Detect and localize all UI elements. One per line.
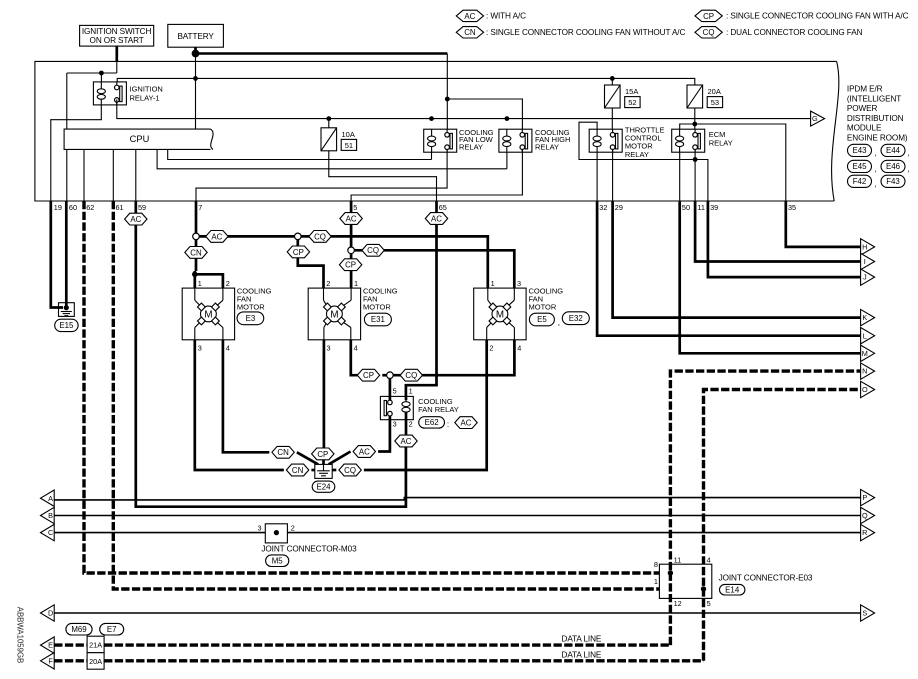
- node switched bus / high relay coil junction: [505, 116, 510, 121]
- hexagon tag AC on pin 65 wire: [425, 213, 447, 225]
- connector oval F43: [881, 175, 905, 187]
- svg-text:E24: E24: [316, 482, 331, 491]
- svg-text::: :: [447, 420, 449, 429]
- wire data line E: [54, 643, 87, 646]
- connector oval E5: [529, 313, 554, 326]
- svg-text:10A: 10A: [342, 130, 355, 139]
- hexagon tag CN lower ground lead: [286, 464, 308, 476]
- svg-text:2: 2: [226, 279, 230, 288]
- svg-text:MOTOR: MOTOR: [237, 302, 265, 311]
- arrow K: [861, 309, 875, 325]
- hexagon tag CP on E31 ground lead: [312, 448, 334, 460]
- svg-text:RELAY: RELAY: [709, 139, 733, 148]
- svg-text:AC: AC: [359, 447, 370, 456]
- svg-text:ABBWA1059GB: ABBWA1059GB: [16, 607, 25, 663]
- svg-text:P: P: [862, 493, 867, 502]
- wire throttle relay coil feed wrap: [579, 122, 695, 159]
- connector oval E62: [419, 417, 445, 428]
- svg-text:S: S: [862, 609, 867, 618]
- arrow J: [861, 269, 875, 285]
- wire diagonal into ground from CN: [297, 452, 318, 464]
- svg-text:M69: M69: [71, 625, 87, 634]
- wire pin 65 down: [435, 201, 438, 213]
- svg-text:,: ,: [908, 164, 910, 173]
- svg-text:O: O: [862, 385, 868, 394]
- wire cpu to high relay coil: [157, 149, 507, 168]
- svg-text:E62: E62: [425, 418, 439, 427]
- svg-text:IGNITION SWITCH: IGNITION SWITCH: [82, 27, 152, 36]
- wire pin 65 to cooling fan relay pin 1: [406, 224, 437, 396]
- wire ignition switch lead: [115, 46, 118, 61]
- joint connector E03 box: [659, 564, 711, 598]
- arrow Q: [861, 507, 875, 523]
- node battery junction: [192, 50, 200, 58]
- arrow E: [41, 637, 55, 653]
- wire fuse 53 to ecm relay: [694, 108, 696, 134]
- svg-text:2: 2: [291, 524, 295, 533]
- wire cpu to low relay coil: [168, 149, 432, 159]
- hexagon tag AC on pin 7 branch: [206, 231, 228, 243]
- wire battery trunk drop to fan relay contacts: [446, 54, 448, 135]
- wire pin 62 CAN line down: [84, 201, 668, 573]
- node switched bus / low relay coil junction: [429, 116, 434, 121]
- svg-text:50: 50: [682, 203, 690, 212]
- battery box: [168, 24, 224, 47]
- arrow R: [861, 524, 875, 540]
- svg-text:32: 32: [599, 203, 607, 212]
- connector oval E43: [848, 144, 872, 156]
- svg-text:ON OR START: ON OR START: [90, 36, 144, 45]
- connector oval E3: [237, 312, 264, 325]
- svg-text:1: 1: [654, 577, 658, 586]
- svg-text:CN: CN: [292, 466, 304, 475]
- fuse 15A 52: [611, 78, 613, 85]
- svg-text:AC: AC: [431, 214, 442, 223]
- svg-text:R: R: [862, 528, 867, 537]
- wire junction down to fan relay pin 5: [389, 379, 392, 397]
- hexagon tag CQ on E5 pin 3 feed: [362, 244, 384, 256]
- svg-text:2: 2: [489, 343, 493, 352]
- wire pin 39 to arrow J: [708, 201, 861, 277]
- svg-text:JOINT CONNECTOR-E03: JOINT CONNECTOR-E03: [719, 573, 813, 582]
- svg-text:19: 19: [54, 203, 62, 212]
- svg-text:: WITH A/C: : WITH A/C: [486, 12, 526, 21]
- splice box 20A: [87, 653, 104, 670]
- svg-text:F: F: [48, 656, 53, 665]
- splice box 21A: [87, 636, 104, 653]
- node switched bus / 10A fuse junction: [326, 116, 331, 121]
- svg-text:JOINT CONNECTOR-M03: JOINT CONNECTOR-M03: [261, 545, 357, 554]
- relay COOLING FAN RELAY E62: [380, 396, 413, 419]
- svg-text:52: 52: [628, 98, 636, 107]
- svg-text:B: B: [48, 511, 53, 520]
- svg-text:AC: AC: [401, 437, 412, 446]
- wire cpu pin 62 output (CAN): [83, 149, 85, 201]
- svg-text:E43: E43: [852, 146, 867, 155]
- junction circle fan relay pin 5 tap: [387, 372, 394, 379]
- hexagon tag AC on fan relay pin 2 wire: [395, 435, 417, 447]
- hexagon tag CP on link row: [357, 369, 379, 381]
- wire ground to E5 motor pin 2: [332, 469, 336, 472]
- wire line D to S: [54, 612, 860, 614]
- svg-text:M: M: [330, 309, 338, 320]
- junction circle pin 5 split: [348, 247, 355, 254]
- connector oval E44: [881, 144, 905, 156]
- wire line B to Q: [54, 515, 860, 517]
- svg-text:DATA LINE: DATA LINE: [562, 634, 602, 643]
- arrow D: [41, 605, 55, 621]
- arrow O: [861, 381, 875, 397]
- wire CAN trunk through E03 to arrow O: [704, 390, 861, 661]
- motor COOLING FAN MOTOR E31: [308, 288, 360, 340]
- wire fuse 52 to throttle relay contact: [611, 108, 613, 134]
- relay ECM RELAY: [672, 129, 705, 152]
- node ecm contact output junction: [693, 157, 698, 162]
- wire data line F: [54, 659, 87, 662]
- hexagon tag CN upper ground lead: [272, 446, 294, 458]
- connector oval M69: [66, 623, 92, 635]
- svg-text:: SINGLE CONNECTOR COOLING FAN: : SINGLE CONNECTOR COOLING FAN WITHOUT A…: [486, 28, 685, 37]
- svg-text:4: 4: [354, 343, 358, 352]
- svg-text:E14: E14: [725, 585, 740, 594]
- svg-text:E45: E45: [852, 162, 867, 171]
- svg-text:3: 3: [198, 343, 202, 352]
- svg-text:G: G: [812, 114, 818, 123]
- legend hexagon AC: [456, 10, 483, 21]
- svg-text:1: 1: [409, 386, 413, 395]
- svg-text:CN: CN: [277, 448, 289, 457]
- svg-text:RELAY: RELAY: [459, 143, 483, 152]
- wire diagonal into ground: [329, 452, 351, 465]
- wire battery trunk (thick): [196, 52, 448, 55]
- wire pin 35 to arrow H: [786, 201, 861, 247]
- CPU box: [64, 129, 210, 149]
- wire low relay contact to pin 7: [196, 149, 447, 201]
- arrow A: [41, 490, 55, 506]
- svg-text:RELAY-1: RELAY-1: [130, 94, 160, 103]
- svg-text:53: 53: [711, 98, 719, 107]
- svg-text:(INTELLIGENT: (INTELLIGENT: [847, 94, 901, 103]
- svg-text:M: M: [862, 349, 868, 358]
- svg-text:1: 1: [491, 279, 495, 288]
- svg-text:1: 1: [354, 279, 358, 288]
- svg-text:MOTOR: MOTOR: [529, 302, 557, 311]
- svg-text:4: 4: [707, 556, 711, 565]
- svg-text:4: 4: [226, 343, 230, 352]
- svg-text:CP: CP: [703, 12, 714, 21]
- node E03 junction lower: [701, 586, 706, 591]
- svg-text:,: ,: [874, 148, 876, 157]
- svg-text:CP: CP: [317, 450, 328, 459]
- svg-text:60: 60: [69, 203, 77, 212]
- svg-text:IGNITION: IGNITION: [130, 84, 163, 93]
- legend hexagon CQ: [695, 27, 722, 38]
- svg-text:CQ: CQ: [405, 371, 417, 380]
- svg-text:M: M: [496, 309, 504, 320]
- wire mid junction down to E31 motor pin 2: [298, 240, 324, 288]
- svg-text:F43: F43: [886, 177, 900, 186]
- svg-text:35: 35: [788, 203, 796, 212]
- wire pin 50 to arrow M: [680, 201, 861, 353]
- wire fan relay pin 3 to ground row: [378, 420, 390, 452]
- wire ignition bus: [67, 72, 117, 74]
- wire pin 11 to arrow I: [695, 201, 861, 262]
- wire junction to E5 motor pin 1: [301, 236, 488, 288]
- node ground E15 junction: [64, 305, 69, 310]
- arrow S: [861, 605, 875, 621]
- junction circle mid split: [295, 233, 302, 240]
- node battery bus / 15A fuse junction: [610, 76, 615, 81]
- svg-text:POWER: POWER: [847, 104, 878, 113]
- svg-text:AC: AC: [464, 12, 475, 21]
- wire pin 5 down: [350, 201, 353, 213]
- svg-text:8: 8: [654, 560, 658, 569]
- wire E3 motor pin 3 to ground: [195, 340, 284, 470]
- connector oval F42: [848, 175, 872, 187]
- wire fan relay pin 2 down: [405, 420, 408, 436]
- connector oval E45: [848, 160, 872, 172]
- svg-text:5: 5: [393, 386, 397, 395]
- wire branch to E3 motor pin 2: [195, 274, 223, 288]
- svg-text:CP: CP: [363, 371, 374, 380]
- svg-text:: DUAL CONNECTOR COOLING FAN: : DUAL CONNECTOR COOLING FAN: [726, 28, 863, 37]
- svg-text:FAN RELAY: FAN RELAY: [418, 405, 459, 414]
- wire pin 29 to arrow K: [613, 201, 861, 318]
- node E3 motor feed junction: [192, 272, 198, 278]
- hexagon tag CQ on E5 pin 1 feed: [309, 231, 331, 243]
- connector oval M5: [266, 555, 289, 567]
- ignition switch box: [80, 25, 154, 46]
- wire throttle relay coil to pin 32: [596, 152, 598, 201]
- wire cpu pin 60 feed (left vertical): [66, 73, 68, 129]
- connector oval E32: [562, 312, 589, 325]
- svg-text:5: 5: [353, 203, 357, 212]
- wire cpu pin 60 output: [66, 149, 68, 201]
- svg-text:E: E: [48, 641, 53, 650]
- relay IGNITION RELAY-1: [93, 82, 126, 105]
- hexagon tag CQ on E5 ground lead: [339, 464, 361, 476]
- wire line C to R: [54, 532, 860, 534]
- svg-text:AC: AC: [461, 418, 472, 427]
- wire ecm relay contact to pin 11 and 39: [694, 149, 696, 201]
- wire junction to E5 motor pin 3: [354, 250, 514, 288]
- arrow G to other page: [811, 111, 825, 126]
- joint connector M03: [265, 524, 287, 543]
- svg-text:J: J: [863, 273, 867, 282]
- wire pin 61 CAN line down: [113, 201, 701, 589]
- wire pin 60 to ground: [65, 201, 68, 308]
- arrow M: [861, 345, 875, 361]
- junction circle pin 7 split: [193, 233, 200, 240]
- wire pin 5 to junction: [350, 224, 353, 247]
- wire junction down to E31 motor pin 1: [350, 254, 353, 289]
- node ignition relay coil tap: [99, 71, 104, 76]
- wire ignition relay contact output (switched bus): [117, 99, 811, 118]
- svg-text:MODULE: MODULE: [847, 124, 882, 133]
- hexagon tag AC on fan relay ground lead: [353, 446, 375, 458]
- wire battery bus inside IPDM: [117, 78, 695, 88]
- svg-text:A: A: [48, 494, 53, 503]
- svg-text:CQ: CQ: [367, 246, 379, 255]
- wire battery feed down to CPU: [195, 54, 197, 130]
- arrow C: [41, 524, 55, 540]
- wire ecm relay coil to pin 50: [679, 152, 681, 201]
- svg-text:ENGINE ROOM): ENGINE ROOM): [847, 133, 908, 142]
- hexagon tag CP on E31 pin 1 feed: [339, 259, 361, 271]
- svg-text:20A: 20A: [89, 657, 102, 666]
- hexagon tag CQ on link row: [400, 369, 422, 381]
- connector oval E7: [100, 623, 124, 635]
- svg-text:Q: Q: [862, 511, 868, 520]
- svg-text:I: I: [864, 257, 866, 266]
- svg-text:21A: 21A: [89, 641, 102, 650]
- wire high relay contact to pin 5: [351, 149, 522, 201]
- motor COOLING FAN MOTOR E3: [182, 288, 234, 340]
- svg-text:RELAY: RELAY: [535, 143, 559, 152]
- connector oval E24: [312, 481, 335, 492]
- connector oval E46: [881, 160, 905, 172]
- svg-text:DATA LINE: DATA LINE: [562, 650, 602, 659]
- svg-text:12: 12: [674, 599, 682, 608]
- svg-text:CN: CN: [464, 28, 476, 37]
- svg-text:AC: AC: [130, 215, 141, 224]
- svg-text:E31: E31: [371, 315, 385, 324]
- svg-text:,: ,: [874, 179, 876, 188]
- wire branch to high relay contact: [447, 99, 522, 134]
- svg-text:M: M: [204, 309, 212, 320]
- wire cpu pin 61 output (CAN): [112, 149, 114, 201]
- wire E3 motor pin 4 to ground: [223, 340, 269, 453]
- svg-text:RELAY: RELAY: [625, 150, 649, 159]
- wire pin 59 down to AC tag: [134, 201, 137, 213]
- wire CAN trunk through E03 to arrow N: [670, 371, 860, 645]
- svg-text:3: 3: [393, 420, 397, 429]
- arrow L: [861, 328, 875, 344]
- hexagon tag AC next to E62: [455, 417, 477, 429]
- fuse 20A 53: [687, 85, 703, 108]
- svg-text:IPDM E/R: IPDM E/R: [847, 85, 883, 94]
- svg-text:E3: E3: [246, 314, 256, 323]
- wire E31 motor pin 4 to link row: [351, 340, 358, 375]
- relay THROTTLE CONTROL MOTOR RELAY: [589, 129, 622, 152]
- svg-text:11: 11: [674, 556, 682, 565]
- wire branch to pin 39: [695, 160, 708, 202]
- svg-text:2: 2: [409, 420, 413, 429]
- svg-text:20A: 20A: [708, 87, 721, 96]
- svg-text:,: ,: [558, 318, 560, 327]
- svg-text:E15: E15: [59, 321, 74, 330]
- wire junction to AC tag branch: [199, 235, 294, 238]
- node fan relay contact feed junction: [445, 97, 450, 102]
- fuse 10A 51: [328, 119, 330, 128]
- svg-text:D: D: [48, 609, 53, 618]
- svg-text:N: N: [862, 367, 867, 376]
- svg-text:CQ: CQ: [344, 466, 356, 475]
- svg-text:K: K: [862, 313, 867, 322]
- svg-text:CP: CP: [293, 248, 304, 257]
- svg-text:M5: M5: [272, 556, 284, 565]
- svg-text:,: ,: [874, 164, 876, 173]
- wire pin 7 down: [195, 201, 198, 233]
- svg-text:E46: E46: [886, 162, 901, 171]
- node battery bus / cpu feed junction: [193, 76, 198, 81]
- wire pin 7 junction down to E3 motor: [195, 240, 198, 271]
- relay COOLING FAN HIGH RELAY: [499, 129, 532, 152]
- svg-text:39: 39: [710, 203, 718, 212]
- ground E24: [315, 464, 332, 478]
- wire link to junction circle: [382, 374, 386, 377]
- wire line A to P: [54, 498, 860, 500]
- arrow N: [861, 363, 875, 379]
- arrow P: [861, 489, 875, 505]
- relay COOLING FAN LOW RELAY: [424, 129, 457, 152]
- svg-text:15A: 15A: [625, 87, 638, 96]
- svg-text:DISTRIBUTION: DISTRIBUTION: [847, 114, 904, 123]
- svg-text:F42: F42: [853, 177, 867, 186]
- svg-text:CN: CN: [190, 248, 202, 257]
- wire ignition relay coil top lead: [100, 73, 102, 82]
- svg-text:MOTOR: MOTOR: [363, 302, 391, 311]
- arrow H: [861, 239, 875, 255]
- svg-text:29: 29: [615, 203, 623, 212]
- svg-text:1: 1: [198, 279, 202, 288]
- svg-text:E44: E44: [886, 146, 901, 155]
- svg-text:3: 3: [517, 279, 521, 288]
- wire cpu pin 59 output: [135, 149, 137, 201]
- arrow I: [861, 253, 875, 269]
- svg-text:CQ: CQ: [314, 232, 326, 241]
- svg-text:3: 3: [327, 343, 331, 352]
- wire ecm coil feed and pin 35 branch: [680, 124, 786, 201]
- ground E15: [59, 303, 75, 317]
- svg-text:E5: E5: [537, 315, 547, 324]
- wire pin 59 to cooling fan relay pin 2: [136, 225, 406, 507]
- motor COOLING FAN MOTOR E5/E32: [474, 288, 526, 340]
- svg-text:11: 11: [697, 203, 705, 212]
- connector oval E15: [55, 319, 78, 331]
- svg-text:7: 7: [198, 203, 202, 212]
- svg-text:AC: AC: [346, 214, 357, 223]
- connector oval E14: [720, 584, 745, 595]
- svg-text:H: H: [862, 243, 867, 252]
- node ecm relay feed junction: [692, 122, 697, 127]
- wire pin 19 to ground: [51, 201, 63, 308]
- wire E31 motor pin 3 to ground: [323, 340, 326, 448]
- wire fuse 51 to pin 65: [329, 151, 437, 201]
- svg-text:CP: CP: [345, 261, 356, 270]
- arrow B: [41, 507, 55, 523]
- svg-text:4: 4: [517, 343, 521, 352]
- wire ignition relay coil return to pin 19: [51, 105, 102, 201]
- hexagon tag CN on E3 feed: [185, 247, 207, 259]
- legend hexagon CN: [456, 27, 483, 38]
- svg-text:2: 2: [326, 279, 330, 288]
- wire battery lead: [194, 47, 197, 53]
- wire junction to CQ tag and E5 motor pin 4: [393, 340, 514, 375]
- svg-text:CQ: CQ: [703, 28, 715, 37]
- svg-text:L: L: [863, 331, 867, 340]
- svg-text:CPU: CPU: [130, 134, 150, 144]
- svg-text:BATTERY: BATTERY: [177, 32, 214, 41]
- svg-text:C: C: [48, 528, 53, 537]
- svg-text:59: 59: [138, 203, 146, 212]
- IPDM E/R enclosure box: [35, 61, 837, 201]
- svg-text:51: 51: [345, 141, 353, 150]
- node E03 junction upper: [668, 570, 673, 575]
- svg-text:62: 62: [86, 203, 94, 212]
- hexagon tag AC on pin 5 wire: [340, 213, 362, 225]
- wire pin 32 to arrow L: [597, 201, 861, 336]
